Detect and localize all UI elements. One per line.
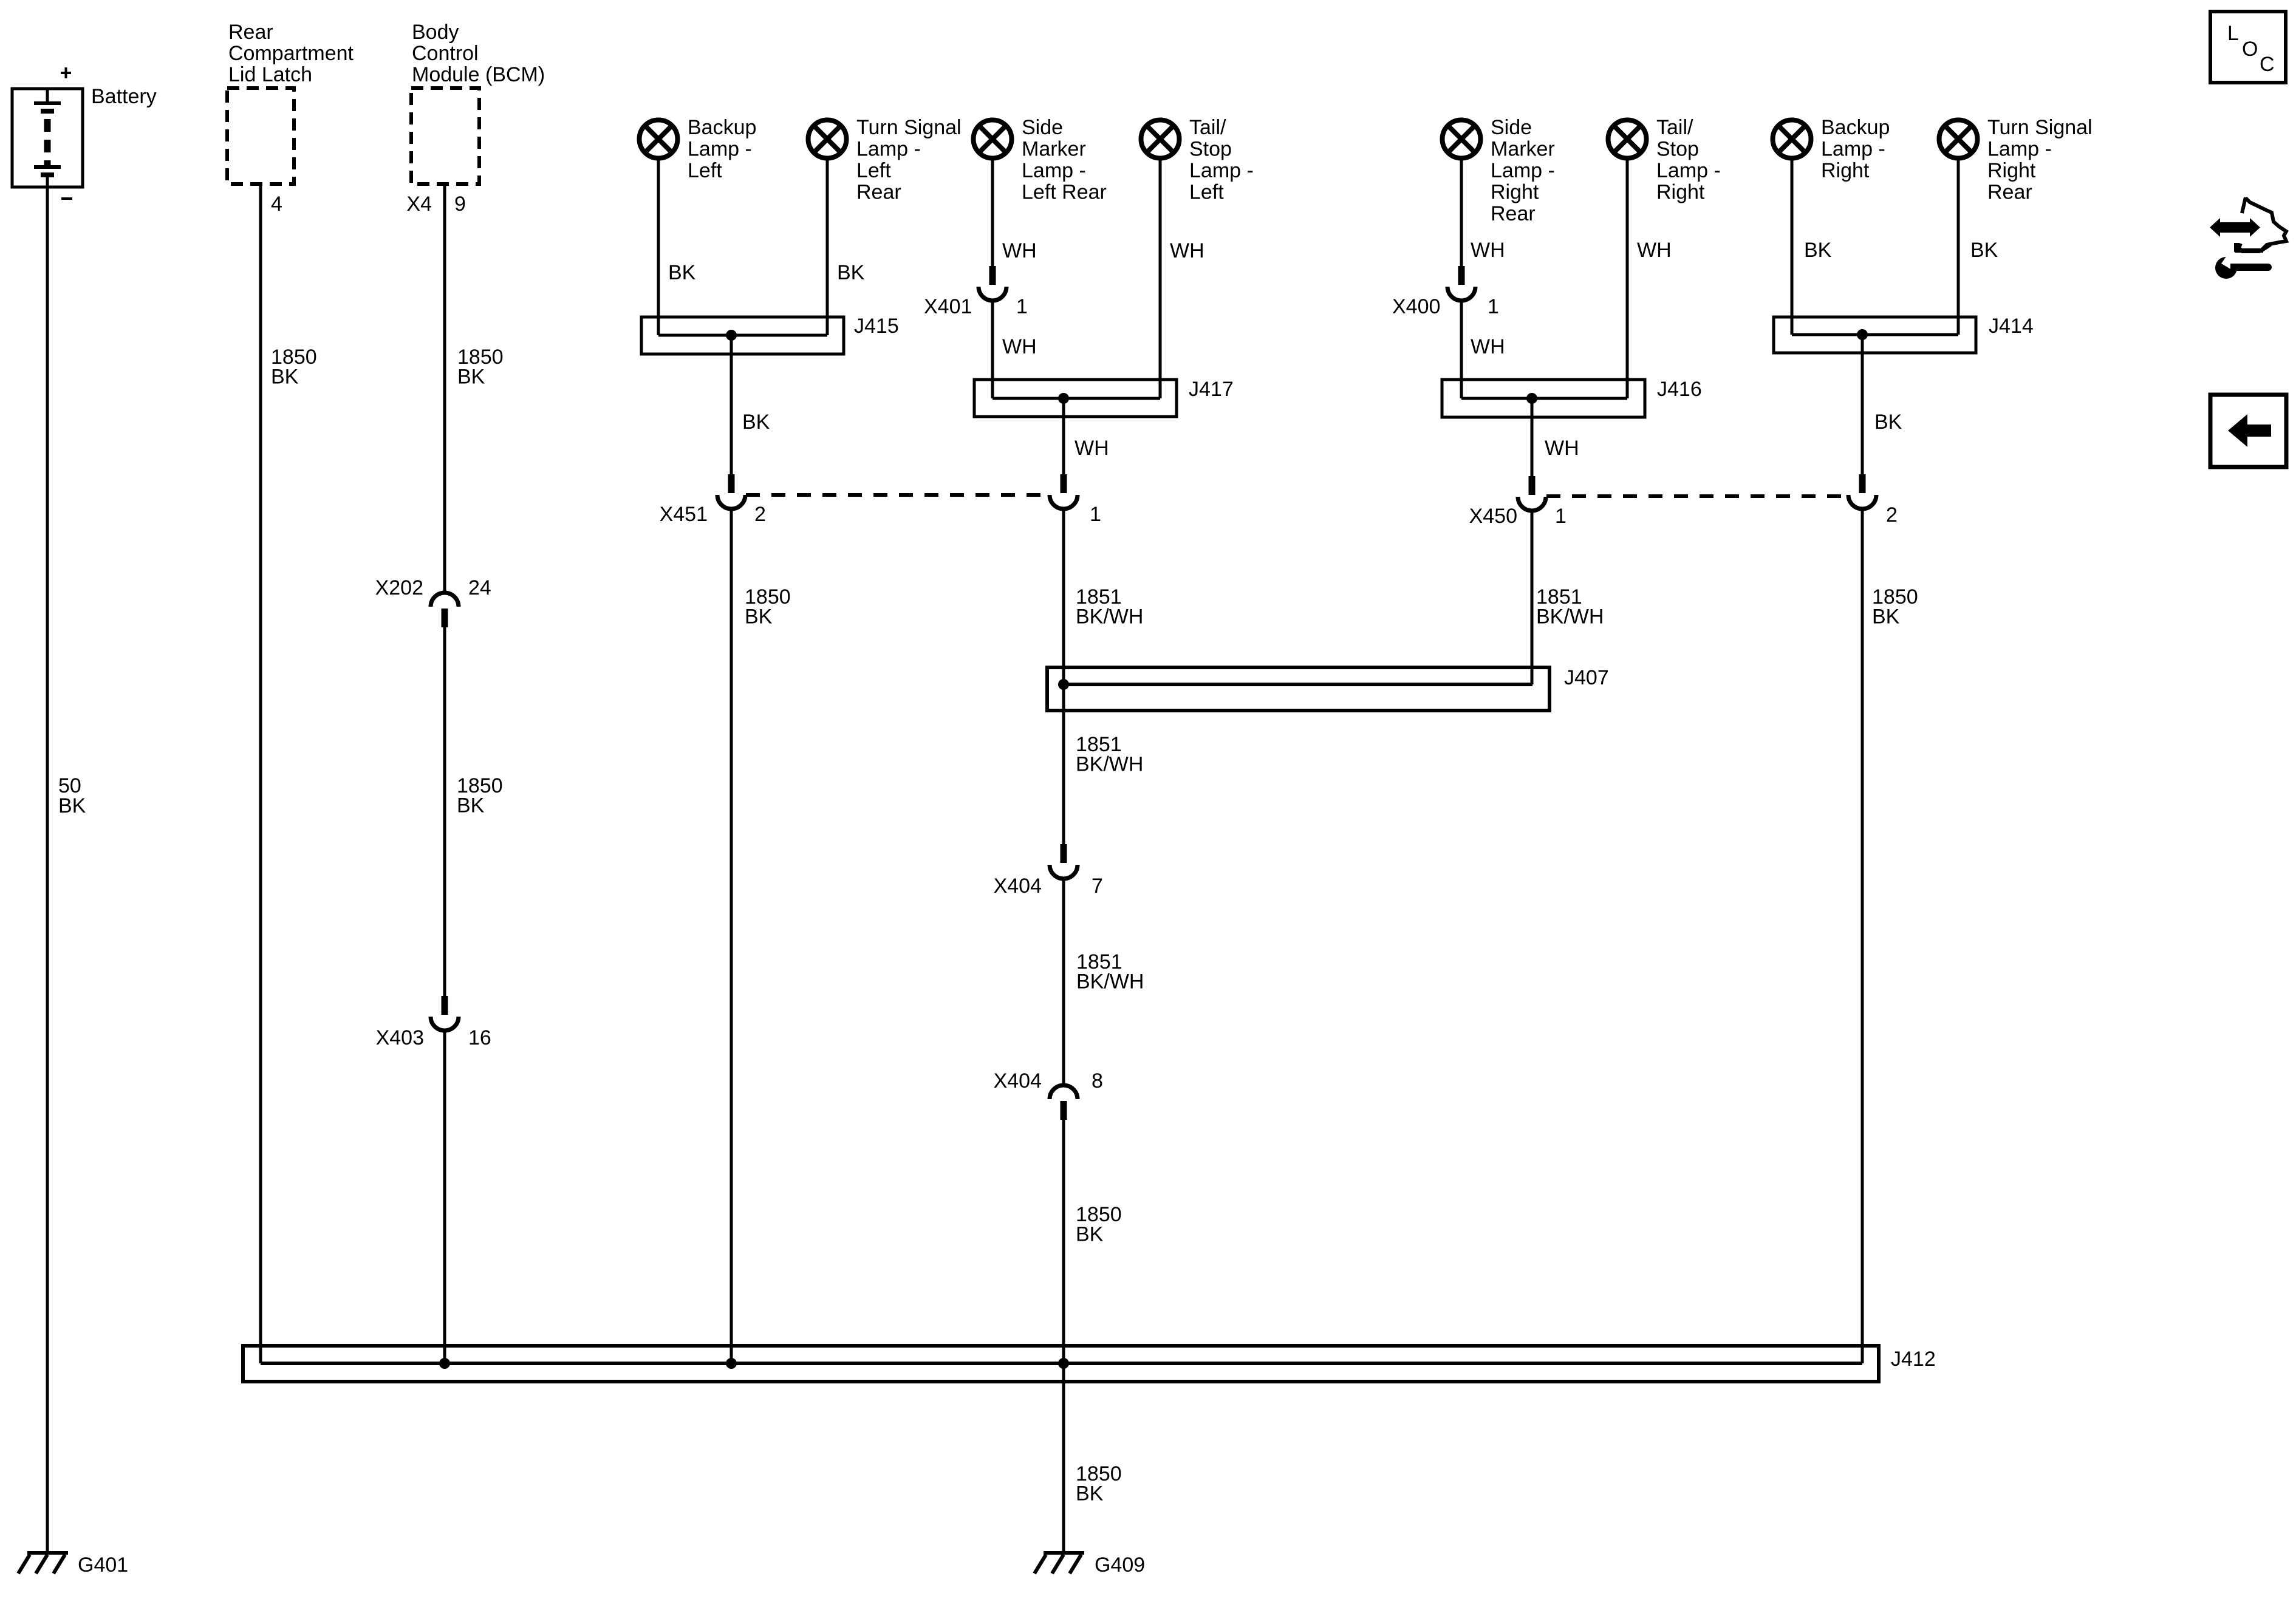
svg-text:X451: X451 xyxy=(660,503,708,526)
svg-text:X404: X404 xyxy=(994,1069,1042,1093)
svg-text:C: C xyxy=(2260,53,2275,76)
svg-text:1: 1 xyxy=(1016,295,1028,318)
svg-text:BK: BK xyxy=(1804,239,1832,262)
svg-text:BK/WH: BK/WH xyxy=(1536,605,1604,629)
svg-text:Lamp -: Lamp - xyxy=(1491,159,1555,182)
svg-text:Battery: Battery xyxy=(91,85,157,108)
svg-text:Body: Body xyxy=(412,21,459,44)
svg-text:BK: BK xyxy=(745,605,773,629)
svg-text:BK: BK xyxy=(1076,1223,1104,1246)
svg-text:WH: WH xyxy=(1545,437,1579,460)
svg-text:X202: X202 xyxy=(375,576,423,599)
svg-text:Backup: Backup xyxy=(688,116,756,139)
svg-text:Rear: Rear xyxy=(1987,181,2032,204)
svg-text:BK/WH: BK/WH xyxy=(1076,970,1144,994)
svg-text:BK/WH: BK/WH xyxy=(1076,605,1143,629)
svg-text:Right: Right xyxy=(1987,159,2036,182)
svg-text:4: 4 xyxy=(271,193,282,216)
svg-text:WH: WH xyxy=(1075,437,1109,460)
svg-text:Lamp -: Lamp - xyxy=(856,138,921,161)
svg-text:1: 1 xyxy=(1488,295,1499,318)
svg-text:Marker: Marker xyxy=(1491,138,1555,161)
svg-text:Tail/: Tail/ xyxy=(1189,116,1226,139)
svg-text:J412: J412 xyxy=(1891,1348,1936,1371)
svg-text:O: O xyxy=(2242,38,2258,61)
svg-text:X401: X401 xyxy=(924,295,972,318)
svg-text:WH: WH xyxy=(1637,239,1672,262)
svg-text:Turn Signal: Turn Signal xyxy=(856,116,962,139)
svg-text:X450: X450 xyxy=(1469,505,1517,528)
svg-text:BK: BK xyxy=(1970,239,1998,262)
svg-text:Left: Left xyxy=(688,159,722,182)
svg-text:X404: X404 xyxy=(994,874,1042,898)
svg-text:Rear: Rear xyxy=(1491,202,1536,225)
svg-text:BK: BK xyxy=(742,411,770,434)
svg-text:Stop: Stop xyxy=(1656,138,1699,161)
svg-text:Rear: Rear xyxy=(228,21,273,44)
svg-text:WH: WH xyxy=(1471,239,1505,262)
svg-text:8: 8 xyxy=(1092,1069,1103,1093)
svg-text:Lamp -: Lamp - xyxy=(1022,159,1086,182)
svg-text:Turn Signal: Turn Signal xyxy=(1987,116,2093,139)
svg-text:G401: G401 xyxy=(78,1553,128,1577)
svg-text:9: 9 xyxy=(454,193,466,216)
svg-text:WH: WH xyxy=(1471,335,1505,358)
svg-text:Lamp -: Lamp - xyxy=(688,138,752,161)
svg-text:BK: BK xyxy=(271,366,299,389)
svg-text:24: 24 xyxy=(468,576,491,599)
svg-text:Left: Left xyxy=(1189,181,1224,204)
svg-text:WH: WH xyxy=(1170,239,1204,262)
svg-text:Lamp -: Lamp - xyxy=(1656,159,1721,182)
svg-text:BK: BK xyxy=(837,261,865,284)
svg-text:L: L xyxy=(2227,22,2239,45)
svg-text:Side: Side xyxy=(1022,116,1063,139)
svg-text:BK/WH: BK/WH xyxy=(1076,753,1143,776)
svg-text:BK: BK xyxy=(668,261,696,284)
svg-text:Marker: Marker xyxy=(1022,138,1086,161)
svg-text:J415: J415 xyxy=(854,315,899,338)
svg-text:7: 7 xyxy=(1092,874,1103,898)
svg-text:BK: BK xyxy=(457,366,485,389)
svg-text:Right: Right xyxy=(1491,181,1539,204)
svg-text:1: 1 xyxy=(1090,503,1101,526)
svg-text:Control: Control xyxy=(412,42,479,65)
svg-text:Module (BCM): Module (BCM) xyxy=(412,63,545,86)
svg-text:WH: WH xyxy=(1002,239,1037,262)
svg-text:BK: BK xyxy=(1874,411,1902,434)
svg-text:X4: X4 xyxy=(406,193,432,216)
svg-text:J416: J416 xyxy=(1657,378,1702,401)
svg-text:J414: J414 xyxy=(1989,315,2034,338)
svg-text:Left Rear: Left Rear xyxy=(1022,181,1107,204)
svg-text:2: 2 xyxy=(754,503,766,526)
svg-text:Side: Side xyxy=(1491,116,1532,139)
svg-text:Rear: Rear xyxy=(856,181,901,204)
svg-text:Stop: Stop xyxy=(1189,138,1232,161)
svg-text:BK: BK xyxy=(58,794,86,817)
svg-text:BK: BK xyxy=(1076,1482,1104,1505)
svg-text:Right: Right xyxy=(1821,159,1870,182)
svg-text:BK: BK xyxy=(457,794,485,817)
svg-text:2: 2 xyxy=(1886,503,1898,527)
svg-text:J417: J417 xyxy=(1189,378,1234,401)
svg-text:Tail/: Tail/ xyxy=(1656,116,1693,139)
svg-text:X400: X400 xyxy=(1392,295,1440,318)
svg-text:Left: Left xyxy=(856,159,891,182)
svg-text:X403: X403 xyxy=(376,1026,424,1049)
svg-text:BK: BK xyxy=(1872,605,1900,629)
svg-text:Lid Latch: Lid Latch xyxy=(228,63,312,86)
svg-text:WH: WH xyxy=(1002,335,1037,358)
svg-text:Backup: Backup xyxy=(1821,116,1890,139)
svg-text:J407: J407 xyxy=(1564,666,1609,689)
svg-text:Lamp -: Lamp - xyxy=(1987,138,2052,161)
svg-text:Lamp -: Lamp - xyxy=(1189,159,1254,182)
svg-text:Compartment: Compartment xyxy=(228,42,354,65)
svg-text:Right: Right xyxy=(1656,181,1705,204)
svg-text:16: 16 xyxy=(468,1026,491,1049)
svg-text:Lamp -: Lamp - xyxy=(1821,138,1885,161)
svg-text:1: 1 xyxy=(1555,505,1567,528)
svg-text:G409: G409 xyxy=(1095,1553,1145,1577)
